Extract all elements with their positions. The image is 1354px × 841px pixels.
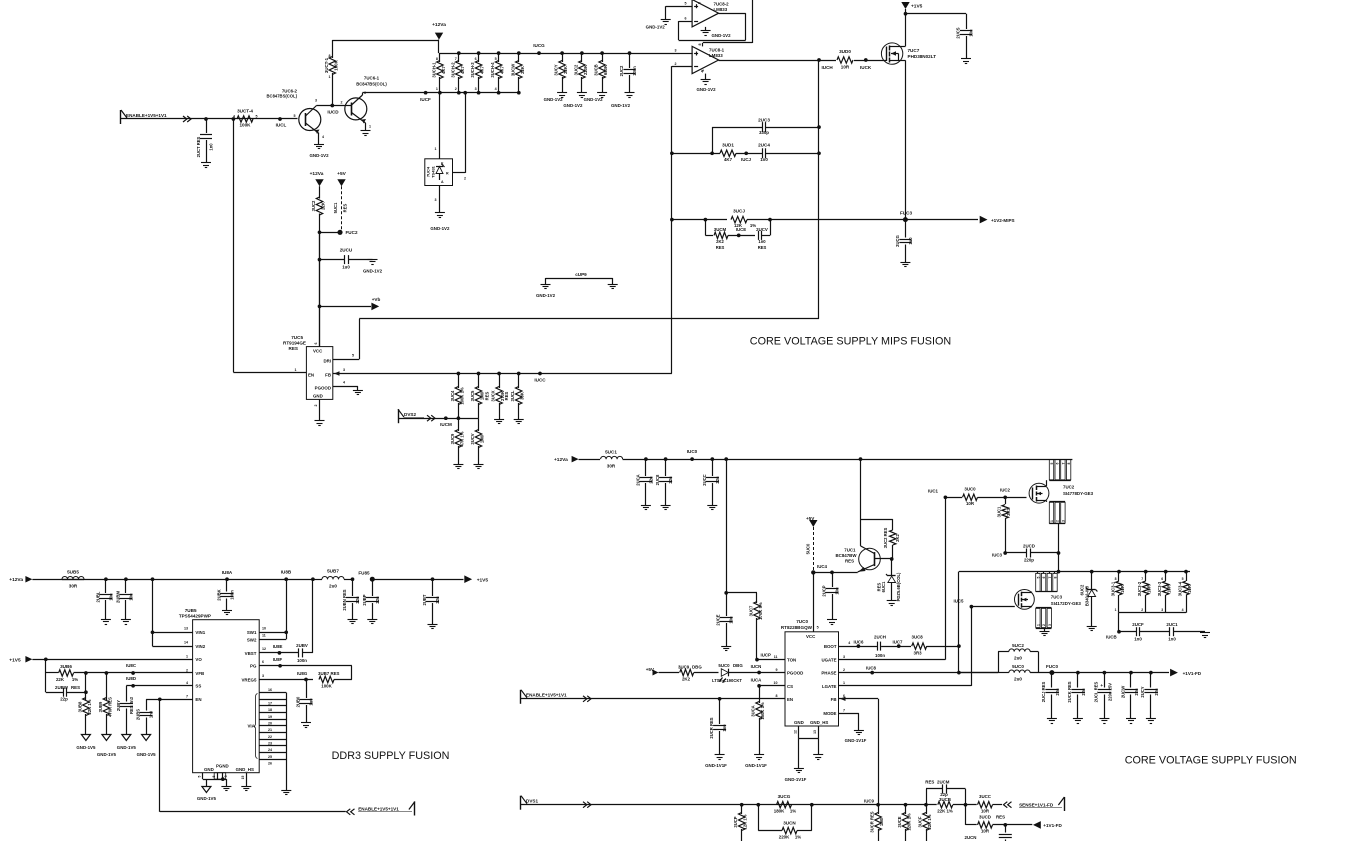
svg-text:+12Va: +12Va [310, 171, 324, 177]
svg-text:22u: 22u [375, 596, 380, 604]
svg-text:FUC0: FUC0 [1046, 664, 1058, 669]
svg-text:ENABLE+1V5+1V1: ENABLE+1V5+1V1 [126, 113, 167, 118]
node IUCE [737, 234, 741, 238]
svg-text:150K 1%: 150K 1% [760, 702, 765, 720]
svg-text:3: 3 [843, 655, 845, 659]
wire gate-feedback rail [818, 60, 820, 319]
resistor 3UCH-2 4K7 [457, 51, 461, 55]
resistor 3UB8 22K 1% [84, 671, 88, 675]
resistor 3UC4 100K 1% [457, 372, 461, 376]
svg-text:VFB: VFB [195, 671, 204, 676]
svg-text:100n: 100n [875, 653, 885, 658]
svg-text:100n: 100n [632, 66, 637, 76]
svg-text:IU8F: IU8F [273, 657, 283, 662]
wire FUC2 to rail [320, 232, 341, 234]
capacitor 2UCA 22u [644, 457, 648, 461]
ground 3UCX [494, 419, 504, 421]
svg-text:FB: FB [831, 697, 837, 702]
svg-text:10: 10 [774, 681, 778, 685]
svg-text:22K: 22K [520, 66, 525, 74]
svg-text:8: 8 [776, 694, 778, 698]
node IUCM [444, 416, 448, 420]
pin EN wire [521, 698, 785, 700]
wire rail to IU8B [227, 579, 313, 581]
resistor 3UC9 DBG 2K2 [680, 669, 694, 675]
wire output +1V1-FD [1052, 672, 1169, 674]
svg-text:6: 6 [314, 343, 318, 345]
svg-text:22u: 22u [1154, 688, 1159, 696]
svg-text:15: 15 [241, 776, 245, 780]
svg-text:22u: 22u [715, 476, 720, 484]
wire op2 +in to ground [666, 6, 692, 8]
ground Q1 emitter [361, 130, 371, 132]
svg-text:22u: 22u [355, 596, 360, 604]
svg-text:3R3: 3R3 [1006, 507, 1011, 515]
svg-text:GND-1V2: GND-1V2 [584, 97, 604, 102]
svg-text:8: 8 [698, 2, 702, 4]
capacitor 2UBS 1n0 [146, 699, 148, 710]
svg-text:3: 3 [475, 87, 477, 91]
node FUC0 [1049, 670, 1054, 675]
svg-text:3UCF: 3UCF [918, 816, 923, 827]
wire UGATE rail up [945, 497, 947, 659]
svg-text:SENSE+1V1-FD: SENSE+1V1-FD [1019, 802, 1054, 807]
wire op2 pin4 ground [705, 27, 707, 31]
svg-text:5: 5 [1182, 577, 1184, 581]
svg-text:CS: CS [787, 684, 793, 689]
svg-text:CORE VOLTAGE SUPPLY FUSION: CORE VOLTAGE SUPPLY FUSION [1125, 755, 1297, 767]
resistor 3UCC 10R [978, 802, 993, 808]
svg-text:RES: RES [289, 346, 298, 351]
svg-text:+5V: +5V [337, 171, 346, 177]
svg-text:1u0: 1u0 [908, 237, 913, 245]
svg-text:10R: 10R [1120, 585, 1125, 593]
svg-text:3UCM: 3UCM [714, 227, 727, 232]
resistor 3UCH-1 4K7 [439, 53, 441, 62]
svg-text:5: 5 [1050, 462, 1054, 464]
svg-text:DVS1: DVS1 [526, 799, 538, 804]
svg-text:RES 3n3: RES 3n3 [129, 696, 134, 714]
svg-text:18: 18 [268, 708, 272, 712]
svg-text:2UCU: 2UCU [340, 248, 353, 253]
svg-text:12K 1%: 12K 1% [743, 814, 748, 829]
net tie cUP9 [546, 278, 613, 280]
svg-text:2UCH: 2UCH [874, 634, 886, 639]
chevron DVS2 [427, 415, 431, 421]
resistor 3UD1 4K7 [720, 150, 736, 156]
svg-text:22u: 22u [1081, 688, 1086, 696]
ground 3UCA GND-1V1F [754, 754, 764, 756]
svg-text:3UC3-2: 3UC3-2 [1137, 581, 1142, 596]
svg-text:7UC8-2: 7UC8-2 [714, 1, 730, 6]
pin EN wire [146, 699, 193, 701]
svg-text:180K: 180K [774, 809, 785, 814]
svg-text:30R: 30R [607, 464, 616, 469]
svg-text:2UBY: 2UBY [116, 700, 121, 711]
svg-text:DRI: DRI [323, 359, 331, 364]
svg-text:7UC5: 7UC5 [291, 335, 303, 340]
resistor 3UCN 220K 1% parallel [758, 805, 760, 831]
svg-text:GND: GND [313, 393, 323, 398]
wire resistor bank top bus [439, 53, 680, 55]
svg-text:6: 6 [1161, 577, 1163, 581]
node boot-phase junction [957, 644, 961, 648]
wire 12V core rail [579, 459, 600, 461]
capacitor 2UCP 10u [830, 571, 834, 575]
capacitor 2UC3 330p [712, 127, 762, 129]
pin LGATE wire [839, 685, 972, 687]
resistor 3UC1 3R3 [1005, 497, 1007, 504]
capacitor 2UC2 100n [628, 51, 632, 55]
svg-text:GND-1V5: GND-1V5 [76, 745, 96, 750]
node IUC1 [944, 495, 948, 499]
svg-text:3: 3 [1161, 608, 1163, 612]
svg-text:4: 4 [186, 681, 188, 685]
svg-text:GND-1V2: GND-1V2 [611, 103, 631, 108]
svg-text:2UCW: 2UCW [1120, 686, 1125, 698]
input flag SENSE [1064, 797, 1066, 811]
svg-text:5UC0: 5UC0 [1012, 664, 1024, 669]
svg-text:3: 3 [343, 368, 345, 372]
capacitor 2UC1 1n0 [1169, 627, 1171, 636]
svg-text:8: 8 [698, 44, 702, 46]
ground 3UCL [514, 419, 524, 421]
svg-text:1: 1 [369, 125, 371, 129]
svg-text:IUCB: IUCB [1106, 635, 1117, 640]
svg-text:GND-1V5: GND-1V5 [137, 752, 157, 757]
VIA pin ladder 16-26 [259, 692, 286, 694]
svg-text:GND-1V2: GND-1V2 [309, 153, 329, 158]
node base junction [890, 557, 894, 561]
svg-text:GND: GND [794, 720, 804, 725]
resistor 3UD0 10R [837, 57, 853, 63]
svg-text:2: 2 [1141, 608, 1143, 612]
svg-text:RES: RES [845, 559, 854, 564]
svg-text:RES: RES [758, 245, 767, 250]
svg-text:GND-1V1F: GND-1V1F [705, 763, 727, 768]
svg-text:100K 1%: 100K 1% [459, 387, 464, 405]
svg-text:GND-1V1F: GND-1V1F [785, 777, 807, 782]
svg-text:+1V5: +1V5 [9, 657, 21, 663]
svg-text:10u: 10u [835, 587, 840, 595]
ground 2UCJ RES [1047, 718, 1057, 720]
svg-text:7UB5: 7UB5 [185, 608, 197, 613]
svg-text:GND_HS: GND_HS [810, 720, 828, 725]
svg-text:26: 26 [268, 761, 272, 765]
ground 7UC0 GND_HS [818, 739, 820, 755]
capacitor 2UBP 22u [372, 579, 374, 596]
inductor 5UC1 30R [601, 456, 607, 459]
capacitor 2UBW RES 22p [46, 692, 64, 694]
input flag ENABLE+1V5+1V1 [120, 110, 122, 124]
transistor 7UC6-2 BC847BS(COL) [299, 109, 321, 131]
svg-text:EN: EN [195, 697, 201, 702]
wire VCC branch rail [724, 457, 728, 461]
svg-text:9: 9 [776, 668, 778, 672]
svg-text:IUC3: IUC3 [992, 553, 1003, 558]
svg-text:11: 11 [774, 655, 778, 659]
wire 3UCT-1 top to +12Va stem [332, 40, 439, 42]
pin VCC wire from IUC4 [813, 572, 815, 631]
wire op1 -in from rail [672, 66, 692, 68]
schottky 6UC2 B340A-M3 [1090, 570, 1094, 574]
svg-text:22u: 22u [1134, 688, 1139, 696]
arrow +1V1-FD [1170, 669, 1178, 677]
svg-text:3UB8: 3UB8 [77, 701, 82, 712]
pin FB wire [839, 698, 879, 700]
svg-text:3UCP: 3UCP [733, 816, 738, 827]
node IU8B [284, 577, 288, 581]
svg-text:3UCL: 3UCL [510, 390, 515, 401]
svg-text:100n: 100n [297, 658, 307, 663]
svg-text:BC847BS(COL): BC847BS(COL) [356, 81, 387, 86]
capacitor 2UCV 1n0 RES [758, 231, 760, 240]
capacitor 2UCN [1005, 825, 1007, 833]
svg-text:4K7: 4K7 [480, 65, 485, 73]
node IUCG [537, 51, 541, 55]
svg-text:8: 8 [1054, 576, 1058, 578]
svg-text:100K: 100K [334, 59, 339, 70]
svg-text:IU8B: IU8B [281, 570, 292, 575]
input flag enable return [414, 802, 416, 816]
svg-text:+12Va: +12Va [9, 577, 23, 583]
node FU85 [370, 577, 375, 582]
capacitor 2UCG 1u0 [905, 220, 907, 238]
resistor 3UCW 22K [517, 51, 521, 55]
svg-text:3UC9: 3UC9 [450, 433, 455, 444]
svg-text:IUC1: IUC1 [928, 489, 939, 494]
svg-text:3UCH-2: 3UCH-2 [450, 62, 455, 78]
wire enable to base [121, 118, 298, 120]
svg-text:1u0: 1u0 [309, 698, 314, 706]
svg-text:IUCF: IUCF [420, 97, 431, 102]
svg-text:IUCH: IUCH [822, 65, 834, 70]
svg-text:IU8E: IU8E [273, 644, 283, 649]
wire collector link to IUCD [317, 105, 345, 107]
wire boot rail [958, 572, 960, 673]
wire VIN feed [151, 577, 155, 581]
wire op1 +in from IUCG bus [680, 53, 693, 55]
svg-text:EN: EN [308, 373, 314, 378]
svg-text:IUC0: IUC0 [687, 449, 698, 454]
svg-text:3UD0: 3UD0 [839, 49, 851, 54]
capacitor 2UCE 10u [726, 593, 728, 616]
resistor 3UB6 22K 1% [46, 672, 58, 674]
inductor 5UC2 2u0 [998, 652, 1000, 673]
capacitor 2UCT 1n0 [204, 117, 208, 121]
svg-text:3UC0: 3UC0 [964, 487, 976, 492]
svg-text:3UC8: 3UC8 [912, 634, 924, 639]
svg-text:5UC1: 5UC1 [605, 450, 617, 455]
ground 7UC0 GND [798, 739, 800, 768]
svg-text:6: 6 [1042, 576, 1046, 578]
svg-text:BC847BS(COL): BC847BS(COL) [267, 94, 298, 99]
resistor 3UB7 RES 100K [319, 676, 334, 682]
svg-text:RES: RES [504, 391, 509, 400]
svg-text:10u: 10u [128, 593, 133, 601]
svg-text:22K: 22K [563, 66, 568, 74]
svg-text:3UCD: 3UCD [979, 815, 991, 820]
IC 7UC5 RT9194GE [306, 347, 332, 400]
svg-text:22p: 22p [60, 697, 68, 702]
svg-text:SI4778DY-GE3: SI4778DY-GE3 [1063, 491, 1094, 496]
svg-text:2UCV: 2UCV [756, 227, 768, 232]
svg-text:+1V2-MIPS: +1V2-MIPS [991, 218, 1015, 223]
svg-text:2UBL: 2UBL [95, 591, 100, 602]
svg-text:1%: 1% [795, 835, 801, 840]
svg-text:RT9194GE: RT9194GE [283, 341, 306, 346]
svg-text:6UC1: 6UC1 [881, 581, 886, 592]
svg-text:GND-1V2: GND-1V2 [536, 293, 556, 298]
svg-text:4K7: 4K7 [500, 65, 505, 73]
svg-text:7UC3: 7UC3 [1051, 595, 1063, 600]
capacitor 2UCY 22u [1149, 671, 1153, 675]
svg-text:RES: RES [996, 815, 1005, 820]
svg-text:IU8D: IU8D [126, 676, 136, 681]
op-amp 7UC8-1 LM833 [692, 46, 719, 73]
svg-text:2UBS: 2UBS [136, 709, 141, 720]
svg-text:1u0: 1u0 [342, 265, 350, 270]
svg-text:4K7: 4K7 [441, 65, 446, 73]
svg-text:1: 1 [1050, 520, 1054, 522]
ground 3UCY [557, 92, 567, 94]
svg-text:3: 3 [262, 674, 264, 678]
svg-text:GND-1V5: GND-1V5 [197, 796, 217, 801]
wire snubber bus [1119, 612, 1186, 614]
svg-text:5: 5 [294, 114, 296, 118]
svg-text:2UCT RES: 2UCT RES [196, 136, 201, 157]
svg-text:7: 7 [843, 709, 845, 713]
svg-text:7UC7: 7UC7 [908, 48, 920, 53]
capacitor 2UCL RES 220u 25V [1103, 671, 1107, 675]
wire EN rail down to 7UC5 EN [233, 119, 235, 372]
ground GND-1V2 Q2 emitter [314, 144, 324, 146]
ground 2UCS [961, 58, 971, 60]
wire LGATE rail up [971, 607, 973, 686]
svg-text:8: 8 [329, 54, 331, 58]
svg-text:PGOOD: PGOOD [315, 385, 331, 390]
svg-text:22K 1%: 22K 1% [937, 809, 953, 814]
capacitor 2UCU 1u0 [318, 258, 322, 262]
svg-text:22u: 22u [435, 596, 440, 604]
node IUCC [538, 372, 542, 376]
svg-text:19: 19 [268, 715, 272, 719]
svg-text:IUCG: IUCG [533, 43, 545, 48]
wire EN to enable flag [158, 697, 162, 701]
svg-text:3: 3 [1048, 624, 1052, 626]
svg-text:FB: FB [325, 373, 331, 378]
node IUC2 [1003, 495, 1007, 499]
svg-text:SI4172DY-GE3: SI4172DY-GE3 [1051, 601, 1082, 606]
resistor 3UC2 RES 2K2 [892, 519, 894, 530]
svg-text:GND_HS: GND_HS [236, 767, 254, 772]
ground 7UC3 source [1044, 628, 1046, 632]
svg-text:VREG5: VREG5 [242, 677, 257, 682]
svg-text:24: 24 [268, 748, 272, 752]
svg-text:21: 21 [268, 728, 272, 732]
svg-text:5UC0: 5UC0 [718, 663, 730, 668]
resistor 3UC3-4 10R [1184, 570, 1188, 574]
resistor 3UB9 470K RES [105, 671, 109, 675]
svg-text:1%: 1% [790, 809, 796, 814]
chevron enable return [347, 809, 351, 815]
svg-text:220p: 220p [1024, 558, 1034, 563]
svg-text:GND-1V2: GND-1V2 [696, 87, 716, 92]
resistor 3UC7 270K 5% [726, 592, 757, 594]
svg-text:3UC2: 3UC2 [311, 200, 316, 211]
pins 7UC2 source 1-3 [1049, 502, 1053, 523]
wire emitter to ground [318, 134, 320, 145]
svg-text:3UCG: 3UCG [778, 794, 791, 799]
svg-text:12: 12 [262, 647, 266, 651]
svg-text:VIN1: VIN1 [195, 630, 205, 635]
node IUCK [854, 60, 886, 62]
pin UGATE wire [839, 659, 946, 661]
ground TS431 GND-1V2 [435, 212, 445, 214]
wire PGOOD chain [659, 672, 680, 674]
svg-text:7UC0: 7UC0 [796, 619, 808, 624]
arrow +Vb [371, 303, 379, 311]
svg-text:FUC2: FUC2 [346, 230, 358, 235]
svg-text:GND-1V2: GND-1V2 [363, 269, 383, 274]
svg-text:PG: PG [250, 664, 257, 669]
svg-text:1: 1 [1036, 624, 1040, 626]
capacitor 2UCK RES 22u [1076, 671, 1080, 675]
svg-text:TON: TON [787, 658, 796, 663]
svg-text:5: 5 [352, 354, 354, 358]
svg-text:3UC3-1: 3UC3-1 [1111, 581, 1116, 596]
node IUCD [330, 104, 334, 108]
svg-text:5: 5 [256, 115, 258, 119]
svg-text:220K: 220K [779, 835, 790, 840]
svg-text:4: 4 [1182, 608, 1184, 612]
resistor 3UC9 47K 1% [457, 416, 461, 420]
ground 2UCK RES [1073, 718, 1083, 720]
input flag DVS2 [398, 409, 400, 423]
svg-text:4: 4 [322, 135, 324, 139]
svg-text:LM833: LM833 [709, 53, 723, 58]
svg-text:2UCG: 2UCG [895, 235, 900, 247]
ground op2 +in GND-1V2 [661, 19, 671, 21]
svg-text:1: 1 [295, 368, 297, 372]
svg-text:22: 22 [268, 735, 272, 739]
svg-text:GND: GND [204, 767, 214, 772]
svg-text:7UC6-2: 7UC6-2 [282, 88, 298, 93]
ground VIA rail [281, 790, 291, 792]
svg-text:+1V1-FD: +1V1-FD [1043, 823, 1062, 828]
IC 7UB5 TPS54429PWP [193, 620, 260, 773]
svg-text:3UC7: 3UC7 [749, 605, 754, 616]
transistor 7UC1 BC847BW RES [859, 548, 881, 570]
svg-text:+: + [1100, 683, 1103, 688]
svg-text:10R: 10R [841, 65, 850, 70]
svg-text:1: 1 [435, 147, 437, 151]
svg-text:3UC3-4: 3UC3-4 [1178, 581, 1183, 596]
svg-text:4K7: 4K7 [724, 157, 733, 162]
svg-text:1n0: 1n0 [760, 157, 768, 162]
svg-text:2UCM: 2UCM [937, 779, 950, 784]
resistor 3UCF 22K 1% [924, 803, 928, 807]
wire 3UCD branch [965, 805, 967, 825]
svg-text:120K 1%: 120K 1% [907, 813, 912, 831]
svg-text:MODE: MODE [823, 711, 836, 716]
node IUCA [757, 684, 761, 688]
svg-text:10R: 10R [1167, 585, 1172, 593]
ground 2UB0 [301, 722, 311, 724]
svg-text:12: 12 [794, 730, 798, 734]
svg-text:DDR3 SUPPLY FUSION: DDR3 SUPPLY FUSION [332, 750, 450, 762]
ground 3UC9 [453, 464, 463, 466]
